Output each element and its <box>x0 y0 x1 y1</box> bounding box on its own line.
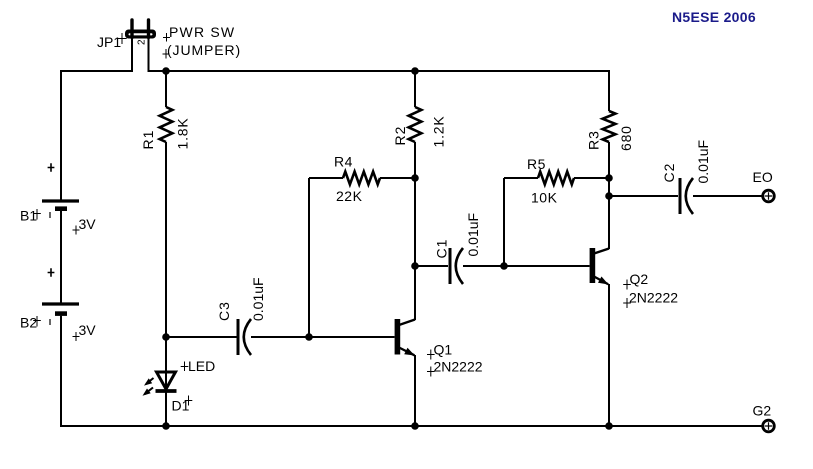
wire: top rail from left rail to JP1 pin 1 <box>61 70 132 72</box>
svg-text:3V: 3V <box>79 216 97 232</box>
wire: B2 - down to ground rail <box>60 316 62 427</box>
svg-text:0.01uF: 0.01uF <box>465 213 481 257</box>
terminal EO <box>763 190 775 202</box>
wire: C1 left lead from collector tap <box>415 265 448 267</box>
resistor R3 <box>603 70 616 178</box>
node: Q1 emitter ground junction <box>411 422 419 430</box>
wire: C2 left lead from collector tap <box>609 195 678 197</box>
label R2 <box>392 126 408 146</box>
node: R2 / R4 junction <box>411 174 419 182</box>
svg-text:2: 2 <box>137 39 148 45</box>
label Q2 <box>623 271 648 290</box>
label 10K <box>531 190 558 206</box>
svg-text:PWR SW: PWR SW <box>169 24 235 40</box>
label 680 <box>618 125 634 151</box>
resistor R5 <box>504 172 609 185</box>
label B2 <box>20 315 50 331</box>
svg-text:Q2: Q2 <box>630 271 649 287</box>
capacitor C3 <box>238 319 251 355</box>
svg-text:G2: G2 <box>753 403 772 419</box>
wire: JP1 pin 2 lead down to rail <box>148 38 150 72</box>
battery B1 <box>42 201 79 209</box>
svg-text:C3: C3 <box>216 301 232 321</box>
label C2 <box>661 163 677 183</box>
node: LED ground junction <box>162 422 170 430</box>
svg-text:(JUMPER): (JUMPER) <box>167 42 241 58</box>
node: C2 tap on Q2 collector line <box>605 192 613 200</box>
transistor Q2 <box>590 248 609 285</box>
svg-text:D1: D1 <box>172 398 190 414</box>
resistor R1 <box>160 71 173 142</box>
label 1.8K <box>175 118 191 150</box>
wire: C1 to Q2 base <box>463 265 590 267</box>
node: Q2 emitter ground junction <box>605 422 613 430</box>
node: R3 / R5 junction <box>605 174 613 182</box>
label 0.01uF of C2 <box>695 140 711 184</box>
svg-text:EO: EO <box>753 169 773 185</box>
resistor R4 <box>309 172 415 185</box>
svg-text:R4: R4 <box>334 154 353 170</box>
svg-text:10K: 10K <box>531 190 558 206</box>
svg-text:R2: R2 <box>392 126 408 146</box>
svg-text:B2: B2 <box>20 315 37 331</box>
LED D1 <box>143 372 177 396</box>
capacitor C1 <box>450 248 463 284</box>
wire: C3 left lead <box>166 336 237 338</box>
label R5 <box>527 156 546 172</box>
label 0.01uF of C3 <box>250 277 266 321</box>
title N5ESE 2006 <box>672 9 756 25</box>
label LED <box>181 358 216 374</box>
node: R5 drop / C1 junction <box>500 262 508 270</box>
svg-text:R3: R3 <box>586 130 602 150</box>
node: R1 top junction <box>162 67 170 75</box>
svg-text:JP1: JP1 <box>97 34 121 50</box>
node: C1 tap on Q1 collector line <box>411 262 419 270</box>
label R4 <box>334 154 353 170</box>
label 3V of B2 <box>73 322 97 341</box>
label D1 <box>172 396 193 414</box>
label JP1 <box>97 33 127 50</box>
label 2N2222 of Q2 <box>623 290 678 309</box>
label EO <box>753 169 773 185</box>
svg-text:22K: 22K <box>336 188 363 204</box>
transistor Q1 <box>395 319 415 356</box>
label C3 <box>216 301 232 321</box>
svg-text:680: 680 <box>618 125 634 151</box>
label Q1 <box>427 342 452 360</box>
svg-text:LED: LED <box>188 358 215 374</box>
wire: Q1 emitter down to ground rail <box>414 355 416 427</box>
label R1 <box>140 130 156 150</box>
label B1 <box>20 208 50 224</box>
label G2 <box>753 403 772 419</box>
label 2N2222 of Q1 <box>427 359 483 377</box>
svg-text:3V: 3V <box>79 322 97 338</box>
wire: ground rail <box>61 425 762 427</box>
label (JUMPER) <box>163 42 242 59</box>
label 22K <box>336 188 363 204</box>
svg-text:C2: C2 <box>661 163 677 183</box>
label 0.01uF of C1 <box>465 213 481 257</box>
svg-text:R5: R5 <box>527 156 546 172</box>
svg-text:2N2222: 2N2222 <box>434 359 483 375</box>
label PWR SW <box>163 24 235 42</box>
wire: R5 left leg down to base wire <box>503 178 505 266</box>
wire: Q2 emitter down to ground rail <box>608 284 610 427</box>
wire: R3/R5 node down to Q2 collector <box>608 178 610 249</box>
node: C3 left junction on R1/LED line <box>162 333 170 341</box>
svg-text:2N2222: 2N2222 <box>629 290 678 306</box>
resistor R2 <box>409 71 422 178</box>
label + polarity of B1 <box>48 163 55 171</box>
label + polarity of B2 <box>48 268 55 276</box>
wire: top rail from JP1 to R3 <box>149 70 610 72</box>
wire: left rail vertical (top rail to B1 +) <box>60 70 62 200</box>
wire: C3 node down through LED to cathode <box>165 337 167 391</box>
wire: R4 left leg down to base wire <box>308 178 310 337</box>
svg-text:1.8K: 1.8K <box>175 118 191 150</box>
label 3V of B1 <box>73 216 97 235</box>
svg-text:1.2K: 1.2K <box>431 116 447 148</box>
svg-text:B1: B1 <box>20 208 37 224</box>
svg-text:0.01uF: 0.01uF <box>250 277 266 321</box>
jumper JP1 shunt block with pins <box>125 20 156 39</box>
wire: C3 to Q1 base <box>251 336 395 338</box>
svg-text:N5ESE 2006: N5ESE 2006 <box>672 9 756 25</box>
svg-text:0.01uF: 0.01uF <box>695 140 711 184</box>
wire: C2 to EO terminal <box>693 195 762 197</box>
battery B2 <box>42 304 79 314</box>
node: R4 drop / C3 junction <box>305 333 313 341</box>
label R3 <box>586 130 602 150</box>
capacitor C2 <box>680 178 693 214</box>
node: R2 top junction <box>411 67 419 75</box>
label C1 <box>434 239 450 259</box>
svg-text:Q1: Q1 <box>434 342 453 358</box>
label 1.2K <box>431 116 447 148</box>
wire: R1 bottom to C3 junction <box>165 142 167 337</box>
wire: R2/R4 node down to Q1 collector <box>414 178 416 320</box>
label JP1 pin number 2 <box>137 39 148 45</box>
wire: B1 - to B2 + <box>60 211 62 303</box>
svg-text:R1: R1 <box>140 130 156 150</box>
svg-text:C1: C1 <box>434 239 450 259</box>
wire: LED cathode down to ground rail <box>165 391 167 427</box>
terminal G2 <box>763 420 775 432</box>
wire: JP1 pin 1 lead down to rail <box>131 38 133 72</box>
